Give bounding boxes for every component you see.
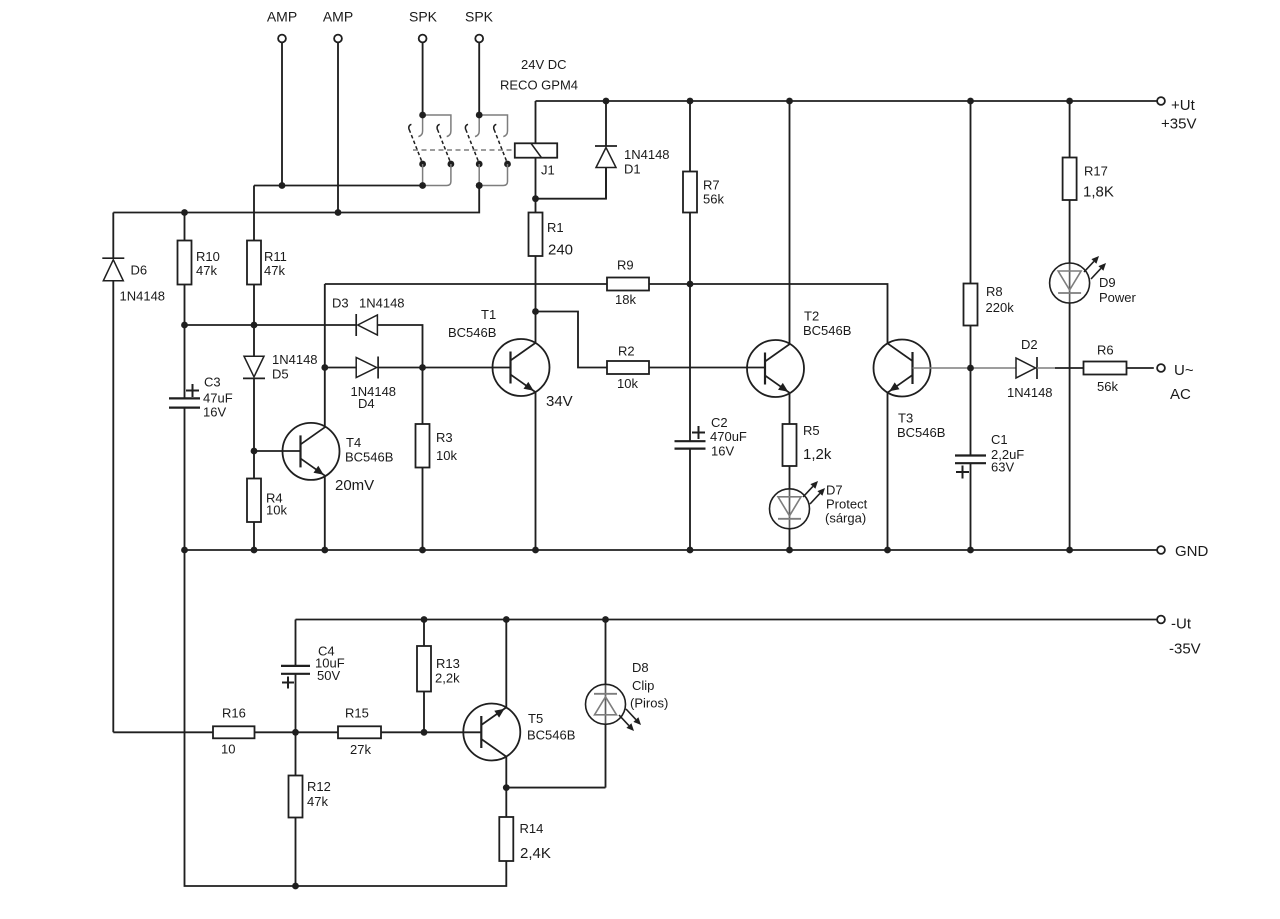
svg-text:1N4148: 1N4148 — [272, 352, 318, 367]
wire R4 to GND — [253, 522, 255, 550]
wire -Ut rail — [296, 619, 1158, 621]
svg-text:BC546B: BC546B — [803, 323, 851, 338]
transistor T2 — [747, 340, 804, 397]
wire -Ut to D8 — [605, 620, 607, 685]
relay contact group 1 (SPK left, part of J1) — [423, 115, 451, 131]
svg-text:R17: R17 — [1084, 164, 1108, 179]
junction T5 collector top — [503, 616, 510, 623]
wire -Ut to C4 — [295, 620, 297, 666]
wire T4 emitter to GND — [324, 476, 326, 550]
wire base wire to C1 — [970, 368, 972, 456]
resistor R17 — [1063, 158, 1077, 201]
wire R6 to U~ terminal — [1127, 367, 1154, 369]
svg-text:D8: D8 — [632, 660, 649, 675]
junction AMP2-wire — [335, 209, 342, 216]
junction GND at x=324.8 — [321, 547, 328, 554]
resistor R4 — [247, 479, 261, 523]
svg-text:RECO GPM4: RECO GPM4 — [500, 78, 578, 93]
svg-text:R15: R15 — [345, 706, 369, 721]
node GND terminal — [1157, 546, 1165, 554]
svg-text:20mV: 20mV — [335, 477, 374, 494]
wire SPK2 feed — [478, 43, 480, 116]
resistor R3 — [416, 424, 430, 468]
wire relay actuator dashed link — [413, 149, 515, 151]
svg-text:T3: T3 — [898, 411, 913, 426]
capacitor C4 — [281, 665, 310, 667]
svg-text:63V: 63V — [991, 460, 1014, 475]
wire T4 collector — [324, 284, 326, 427]
wire D6 to R16 corner — [112, 281, 114, 733]
svg-text:10k: 10k — [266, 503, 287, 518]
svg-text:47k: 47k — [196, 263, 217, 278]
svg-text:R6: R6 — [1097, 343, 1114, 358]
junction GND at x=887.5 — [884, 547, 891, 554]
svg-text:BC546B: BC546B — [345, 450, 393, 465]
svg-text:T5: T5 — [528, 711, 543, 726]
svg-text:R11: R11 — [264, 249, 287, 264]
svg-text:D9: D9 — [1099, 275, 1116, 290]
wire C3 to GND — [184, 408, 186, 550]
wire R9 net right — [649, 284, 888, 344]
svg-text:D7: D7 — [826, 483, 843, 498]
resistor R5 — [783, 424, 797, 466]
wire T2 collector — [789, 101, 791, 345]
resistor R14 — [499, 817, 513, 861]
wire R3 to GND — [422, 468, 424, 551]
svg-text:SPK: SPK — [465, 9, 494, 25]
svg-text:56k: 56k — [1097, 379, 1118, 394]
wire D4 net left — [325, 367, 356, 369]
svg-text:T4: T4 — [346, 435, 361, 450]
svg-text:56k: 56k — [703, 192, 724, 207]
svg-text:50V: 50V — [317, 668, 340, 683]
diode D4 — [356, 358, 376, 378]
wire +Ut top rail — [536, 100, 1158, 102]
wire C1 to GND — [970, 463, 972, 550]
svg-text:GND: GND — [1175, 543, 1209, 560]
LED D7 — [789, 489, 791, 529]
junction R8/C1/base — [967, 365, 974, 372]
svg-text:18k: 18k — [615, 292, 636, 307]
capacitor C2 — [675, 440, 706, 442]
svg-text:Protect: Protect — [826, 497, 868, 512]
capacitor C3 — [169, 397, 200, 399]
svg-text:240: 240 — [548, 242, 573, 259]
wire +Ut to R17 — [1069, 101, 1071, 158]
wire D3 net left — [185, 324, 357, 326]
svg-text:D5: D5 — [272, 367, 289, 382]
wire AMP2 net (to relay group 2 common) — [113, 186, 479, 213]
resistor R13 — [417, 646, 431, 692]
svg-text:220k: 220k — [986, 300, 1015, 315]
svg-text:R14: R14 — [520, 821, 544, 836]
svg-text:U~: U~ — [1174, 362, 1194, 379]
wire D9 to GND — [1069, 303, 1071, 550]
wire -Ut to R13 — [423, 620, 425, 647]
wire R16 to C4 junction — [255, 731, 296, 733]
wire R13 to bias wire — [423, 692, 425, 733]
svg-text:16V: 16V — [203, 405, 226, 420]
svg-text:D3: D3 — [332, 296, 349, 311]
svg-text:10k: 10k — [436, 448, 457, 463]
junction C4/R12/bias — [292, 729, 299, 736]
junction GND at x=422.5 — [419, 547, 426, 554]
svg-text:R16: R16 — [222, 706, 246, 721]
svg-text:1N4148: 1N4148 — [120, 289, 166, 304]
svg-text:J1: J1 — [541, 163, 555, 178]
svg-text:R1: R1 — [547, 220, 564, 235]
wire SPK1 feed — [422, 43, 424, 116]
junction R11/D3 wire — [251, 322, 258, 329]
wire T5 emitter — [505, 757, 507, 788]
svg-text:470uF: 470uF — [710, 429, 747, 444]
junction T4 base — [251, 448, 258, 455]
junction R13 bottom — [421, 729, 428, 736]
wire D2 to R6 — [1037, 367, 1055, 369]
svg-text:Power: Power — [1099, 290, 1137, 305]
wire -Ut to T5 collector — [505, 620, 507, 708]
transistor T3 — [874, 340, 931, 397]
svg-text:C1: C1 — [991, 432, 1008, 447]
svg-text:27k: 27k — [350, 742, 371, 757]
svg-text:47k: 47k — [264, 263, 285, 278]
wire C4 to bias wire — [295, 674, 297, 733]
svg-text:10k: 10k — [617, 376, 638, 391]
junction T5 emitter — [503, 784, 510, 791]
junction R10 top — [181, 209, 188, 216]
resistor R6 — [1084, 362, 1127, 375]
junction GND at x=789.5 — [786, 547, 793, 554]
wire wire1 to R11 — [253, 186, 255, 241]
svg-text:1N4148: 1N4148 — [624, 147, 670, 162]
transistor T5 — [463, 704, 520, 761]
node U~ terminal (AC sense) — [1157, 364, 1165, 372]
wire R14 to bottom rail — [185, 550, 507, 886]
svg-text:C2: C2 — [711, 415, 728, 430]
svg-text:+Ut: +Ut — [1171, 97, 1196, 114]
wire R11 to D5 — [253, 285, 255, 357]
junction R17 top — [1066, 98, 1073, 105]
svg-text:47uF: 47uF — [203, 391, 233, 406]
diode D6 — [102, 257, 124, 259]
svg-text:(sárga): (sárga) — [825, 511, 866, 526]
node -Ut terminal — [1157, 616, 1165, 624]
junction GND at x=535.5 — [532, 547, 539, 554]
svg-text:(Piros): (Piros) — [630, 696, 668, 711]
svg-text:AC: AC — [1170, 386, 1191, 403]
resistor R11 — [247, 241, 261, 285]
svg-text:R7: R7 — [703, 178, 720, 193]
capacitor C1 — [955, 454, 986, 456]
wire R9 net left — [325, 283, 607, 285]
junction GND at x=254 — [251, 547, 258, 554]
svg-text:R12: R12 — [307, 779, 331, 794]
svg-text:T1: T1 — [481, 307, 496, 322]
resistor R12 — [289, 776, 303, 818]
LED D8 — [605, 684, 607, 724]
wire R15 to T5 base — [381, 731, 481, 733]
wire +Ut to R7 — [689, 101, 691, 172]
svg-text:10: 10 — [221, 742, 235, 757]
wire T5 emitter to D8 column — [506, 787, 605, 789]
svg-text:BC546B: BC546B — [527, 728, 575, 743]
junction relay group 2 bottom — [476, 182, 483, 189]
junction J1 bottom — [532, 195, 539, 202]
svg-text:BC546B: BC546B — [448, 325, 496, 340]
svg-text:D6: D6 — [131, 263, 148, 278]
svg-text:16V: 16V — [711, 444, 734, 459]
junction R12 bottom — [292, 883, 299, 890]
svg-text:Clip: Clip — [632, 678, 654, 693]
svg-text:R3: R3 — [436, 430, 453, 445]
wire bias junction to R12 — [295, 732, 297, 775]
wire R7 to C2 — [689, 213, 691, 442]
relay contact group 2 (SPK right, part of J1) — [479, 115, 507, 131]
svg-text:-Ut: -Ut — [1171, 616, 1192, 633]
svg-text:R13: R13 — [436, 656, 460, 671]
svg-text:BC546B: BC546B — [897, 425, 945, 440]
svg-text:D4: D4 — [358, 396, 375, 411]
svg-text:AMP: AMP — [267, 9, 297, 25]
svg-text:R8: R8 — [986, 284, 1003, 299]
wire R2 to T2 base — [649, 367, 766, 369]
junction R9/R7/C2 — [687, 281, 694, 288]
svg-text:34V: 34V — [546, 393, 573, 410]
junction GND at x=184.5 — [181, 547, 188, 554]
resistor R16 — [213, 726, 255, 738]
junction GND at x=1069.6 — [1066, 547, 1073, 554]
resistor R10 — [178, 241, 192, 285]
wire D4 to T1 base — [378, 367, 510, 369]
junction R13 top — [421, 616, 428, 623]
svg-text:AMP: AMP — [323, 9, 353, 25]
svg-text:R9: R9 — [617, 258, 634, 273]
svg-text:1N4148: 1N4148 — [359, 296, 405, 311]
svg-text:T2: T2 — [804, 309, 819, 324]
node +Ut terminal — [1157, 97, 1165, 105]
wire R8 to base wire — [970, 326, 972, 369]
junction GND at x=690 — [687, 547, 694, 554]
wire T4-base junction to R4 — [253, 451, 255, 479]
wire R16 net left — [113, 731, 213, 733]
junction AMP1-wire — [279, 182, 286, 189]
wire R10 to C3 — [184, 285, 186, 399]
wire C4 junction to R15 — [296, 731, 339, 733]
junction T1 collector tap — [532, 308, 539, 315]
svg-text:-35V: -35V — [1169, 641, 1201, 658]
wire D3 net right — [377, 325, 422, 424]
wire R5 to D7 — [789, 466, 791, 489]
junction D8 top — [602, 616, 609, 623]
node AMP (left speaker amp input terminal) — [278, 35, 286, 43]
wire C2 to GND — [689, 449, 691, 550]
junction R3 top — [419, 364, 426, 371]
junction T2 collector top — [786, 98, 793, 105]
resistor R15 — [338, 726, 381, 738]
svg-text:2,4K: 2,4K — [520, 845, 551, 862]
wire GND rail — [185, 549, 1158, 551]
wire wire2 to R10 — [184, 213, 186, 241]
wire R17 to D9 — [1069, 200, 1071, 263]
wire T3 emitter to GND — [887, 393, 889, 551]
wire D1 branch lower — [605, 168, 607, 199]
transistor T1 — [493, 339, 550, 396]
wire D7 to GND — [789, 529, 791, 550]
wire D8 to emitter wire — [605, 724, 607, 787]
wire D1 branch upper — [605, 101, 607, 146]
svg-text:R10: R10 — [196, 249, 220, 264]
svg-text:D2: D2 — [1021, 337, 1038, 352]
diode D1 — [595, 145, 617, 147]
wire R12 to bottom rail — [295, 818, 297, 887]
wire J1 to R1 — [535, 199, 537, 213]
svg-text:D1: D1 — [624, 162, 641, 177]
wire AMP2 feed — [337, 43, 339, 213]
svg-text:47k: 47k — [307, 794, 328, 809]
wire T1 emitter to GND — [535, 392, 537, 550]
wire D5 to T4 base — [253, 378, 255, 451]
resistor R7 — [683, 172, 697, 213]
junction T4 collector / D4 — [321, 364, 328, 371]
wire T2 emitter to R5 — [789, 393, 791, 424]
svg-text:C3: C3 — [204, 375, 221, 390]
resistor R2 — [607, 361, 649, 374]
wire D6 upper — [112, 213, 114, 259]
svg-text:2,2k: 2,2k — [435, 671, 460, 686]
wire T5 emitter to R14 — [505, 788, 507, 817]
node SPK (left speaker terminal) — [419, 35, 427, 43]
diode D5 — [244, 356, 264, 377]
wire T3 base to D2 — [913, 367, 1017, 369]
svg-text:R5: R5 — [803, 423, 820, 438]
wire AMP1 feed — [281, 43, 283, 186]
wire +Ut to R8 — [970, 101, 972, 284]
svg-text:1N4148: 1N4148 — [1007, 385, 1053, 400]
node AMP (right amp input terminal) — [334, 35, 342, 43]
resistor R9 — [607, 278, 649, 291]
wire T1 collector to R2 jog — [536, 312, 608, 368]
wire R1 to T1 collector — [535, 256, 537, 343]
wire T4 base — [254, 450, 301, 452]
svg-text:1,2k: 1,2k — [803, 446, 832, 463]
junction R10/C3/wire3 — [181, 322, 188, 329]
junction D1 top — [603, 98, 610, 105]
junction R7 top — [687, 98, 694, 105]
diode D3 — [355, 314, 357, 336]
svg-text:+35V: +35V — [1161, 116, 1196, 133]
node SPK (right speaker terminal) — [475, 35, 483, 43]
junction R8 top — [967, 98, 974, 105]
svg-text:R2: R2 — [618, 344, 635, 359]
svg-text:1,8K: 1,8K — [1083, 184, 1114, 201]
LED D9 — [1069, 263, 1071, 303]
diode D2 — [1016, 358, 1036, 378]
junction GND at x=970.5 — [967, 547, 974, 554]
svg-text:SPK: SPK — [409, 9, 438, 25]
wire J1 bottom to D1 — [536, 168, 607, 199]
resistor R1 — [529, 213, 543, 257]
svg-text:24V DC: 24V DC — [521, 57, 567, 72]
wire AMP1 net (to relay group 1 common) — [254, 185, 423, 187]
resistor R8 — [964, 284, 978, 326]
relay coil J1 — [515, 101, 557, 199]
transistor T4 — [283, 423, 340, 480]
